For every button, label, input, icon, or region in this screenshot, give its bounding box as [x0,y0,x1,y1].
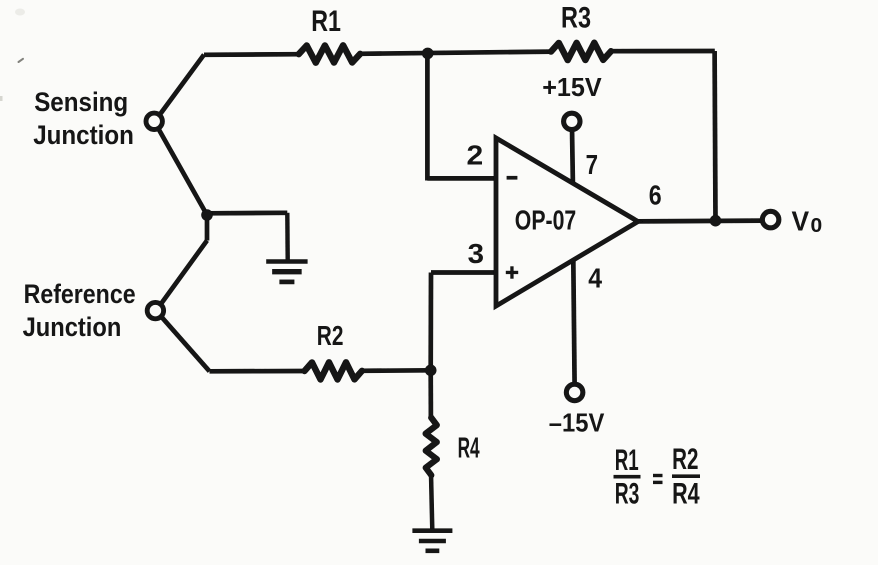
svg-text:Junction: Junction [23,312,122,342]
svg-text:Junction: Junction [33,120,134,150]
svg-text:R3: R3 [615,478,640,511]
svg-text:R4: R4 [458,432,480,464]
svg-text:Sensing: Sensing [34,87,128,117]
svg-text:–15V: –15V [549,408,605,438]
svg-text:R2: R2 [317,320,344,351]
svg-text:0: 0 [811,215,823,237]
svg-text:R3: R3 [561,1,591,34]
svg-text:+15V: +15V [542,74,602,102]
svg-text:R1: R1 [615,444,639,477]
svg-text:3: 3 [468,238,484,269]
svg-text:4: 4 [588,263,602,294]
svg-text:OP-07: OP-07 [515,205,576,236]
svg-text:7: 7 [586,149,598,180]
svg-text:R1: R1 [311,5,341,38]
svg-text:R4: R4 [672,478,700,511]
svg-text:Reference: Reference [24,279,136,309]
svg-text:2: 2 [467,140,484,171]
svg-text:R2: R2 [672,443,698,476]
svg-text:6: 6 [649,180,662,211]
svg-text:V: V [792,205,810,236]
